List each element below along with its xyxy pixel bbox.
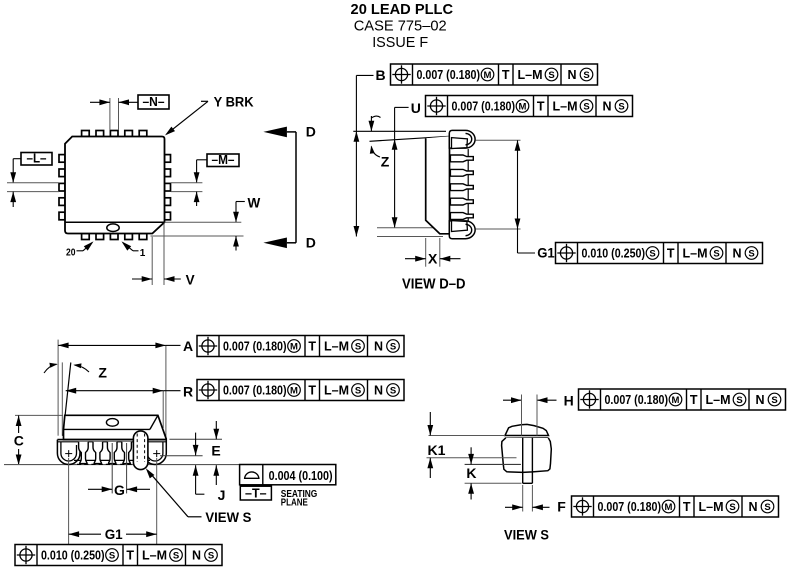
svg-text:T: T [667,247,675,261]
svg-text:CASE 775–02: CASE 775–02 [354,18,447,35]
svg-text:T: T [308,384,316,398]
dimension C [14,416,24,466]
svg-text:0.007 (0.180): 0.007 (0.180) [417,68,481,82]
datum T seating plane [240,486,317,509]
label G1 top [537,245,555,261]
svg-text:N: N [603,100,612,114]
feature frame B [391,64,598,85]
svg-text:T: T [308,340,316,354]
svg-text:M: M [290,341,298,352]
svg-text:F: F [557,498,566,514]
label A [183,338,193,354]
svg-text:N: N [756,393,765,407]
pin label 1 [122,241,146,259]
section D-D arrows [263,124,315,251]
front view rail inner bottom [74,459,150,461]
svg-text:G1: G1 [105,526,123,542]
title CASE 775-02 [354,18,447,35]
svg-text:S: S [109,550,115,561]
svg-text:L–M: L–M [699,500,724,514]
svg-text:S: S [390,385,396,396]
feature frame U [426,96,633,117]
svg-text:N: N [374,384,383,398]
svg-text:ISSUE F: ISSUE F [372,34,428,51]
dimension X [405,238,461,267]
svg-text:Z: Z [98,364,107,380]
seating plane line [4,464,240,466]
dimension J [193,465,226,503]
view D-D overall height dimension [354,131,444,236]
label F [557,498,566,514]
dimension -M- [171,153,239,206]
svg-text:–M–: –M– [212,153,235,167]
svg-text:0.010 (0.250): 0.010 (0.250) [582,247,646,261]
front view dimension R line [66,388,181,394]
svg-text:0.007 (0.180): 0.007 (0.180) [452,100,516,114]
svg-text:0.004 (0.100): 0.004 (0.100) [269,469,333,483]
svg-text:–N–: –N– [143,95,165,109]
svg-text:S: S [729,502,735,513]
svg-text:T: T [537,100,545,114]
pin label 20 [66,241,94,258]
svg-text:S: S [583,101,589,112]
dimension -L- [7,151,59,207]
svg-text:K: K [466,465,476,481]
svg-text:M: M [484,70,492,81]
svg-text:S: S [649,248,655,259]
svg-text:R: R [183,383,193,399]
feature frame H [579,389,786,410]
svg-text:G: G [114,482,125,498]
svg-text:S: S [583,70,589,81]
svg-text:–L–: –L– [27,151,47,165]
view S lead hat [429,424,549,438]
top view leads top row [82,131,147,137]
svg-text:L–M: L–M [683,247,708,261]
feature frame A [197,336,404,357]
svg-text:VIEW S: VIEW S [205,509,251,525]
svg-text:M: M [665,502,673,513]
svg-text:B: B [376,67,386,83]
top view pin1 dimple [107,224,119,232]
svg-text:U: U [411,100,421,116]
svg-text:S: S [208,550,214,561]
svg-text:J: J [218,487,226,503]
svg-text:S: S [736,395,742,406]
view S lead leg [523,438,533,484]
svg-text:S: S [771,395,777,406]
feature frame G1 bottom [15,545,222,566]
top view body bottom line [65,221,165,223]
svg-text:T: T [683,500,691,514]
svg-text:S: S [548,70,554,81]
front view dimension A line [58,343,180,349]
svg-text:VIEW D–D: VIEW D–D [402,275,466,292]
svg-text:S: S [748,248,754,259]
svg-text:S: S [713,248,719,259]
svg-text:1: 1 [140,248,146,259]
dimension W [151,196,261,251]
svg-text:L–M: L–M [142,549,167,563]
svg-text:M: M [672,395,680,406]
dimension H extension lines [522,395,538,436]
svg-text:H: H [564,393,574,409]
view D-D angle Z [369,116,390,170]
dimension -N- [90,95,169,130]
svg-text:20: 20 [66,248,76,259]
dimension K [465,447,522,499]
dimension G [88,443,150,498]
svg-text:D: D [306,234,316,250]
svg-text:V: V [186,273,195,288]
front view body [64,415,167,439]
feature frame G1 top [556,243,763,264]
dimension V [132,224,195,288]
svg-text:N: N [733,247,742,261]
flatness frame [240,465,336,485]
view D-D dimension G1 lines [476,140,536,253]
svg-text:S: S [173,550,179,561]
svg-text:S: S [390,341,396,352]
label H [564,393,574,409]
title ISSUE F [372,34,428,51]
top view leads bottom row [82,234,147,240]
svg-text:0.007 (0.180): 0.007 (0.180) [223,384,287,398]
top view leads right row [165,155,171,220]
view S lead body [502,438,552,473]
svg-text:0.010 (0.250): 0.010 (0.250) [41,549,105,563]
front view leads [79,442,132,464]
svg-text:W: W [248,196,261,211]
dimension F [505,485,550,512]
dimension H [503,397,557,403]
view D-D top corner J-lead [449,130,475,148]
front view lead detail S [133,431,148,470]
svg-text:Z: Z [381,154,390,170]
svg-text:S: S [355,385,361,396]
svg-text:X: X [428,250,438,266]
svg-text:VIEW S: VIEW S [504,527,549,543]
svg-text:S: S [764,502,770,513]
front view corner J-lead rail [57,440,166,465]
caption VIEW D-D [402,275,466,292]
caption VIEW S [504,527,549,543]
svg-text:L–M: L–M [553,100,578,114]
svg-text:G1: G1 [537,245,555,261]
svg-text:C: C [14,433,24,449]
view D-D slanted top line [370,136,450,141]
svg-text:L–M: L–M [518,68,543,82]
svg-text:0.007 (0.180): 0.007 (0.180) [598,500,662,514]
svg-text:T: T [502,68,510,82]
svg-text:T: T [690,393,698,407]
feature frame F [572,496,779,517]
label VIEW S pointer [146,468,252,525]
svg-text:S: S [355,341,361,352]
svg-text:E: E [211,442,220,458]
view D-D bottom corner J-lead [449,221,475,239]
svg-text:0.007 (0.180): 0.007 (0.180) [223,340,287,354]
front view angle Z [44,363,107,437]
svg-text:L–M: L–M [706,393,731,407]
svg-text:N: N [192,549,201,563]
view D-D body outline [426,136,450,234]
svg-text:M: M [519,101,527,112]
top view package body [65,137,165,234]
view D-D far lead row line [467,149,469,221]
label R [183,383,193,399]
svg-text:T: T [126,549,134,563]
dimension G1 bottom [69,458,157,544]
svg-text:20 LEAD PLLC: 20 LEAD PLLC [351,1,454,18]
svg-text:–T–: –T– [245,487,267,501]
svg-text:S: S [618,101,624,112]
view D-D top reference line [353,130,446,132]
view D-D body height dimension [377,139,447,228]
svg-text:0.007 (0.180): 0.007 (0.180) [605,393,669,407]
label Y BRK [165,94,254,135]
svg-text:D: D [306,124,316,140]
svg-text:N: N [568,68,577,82]
svg-text:L–M: L–M [324,340,349,354]
dimension K1 [427,412,517,478]
title 20 LEAD PLLC [351,1,454,18]
svg-text:L–M: L–M [324,384,349,398]
front view extension lines [15,340,166,439]
svg-text:M: M [290,385,298,396]
feature frame R [197,380,404,401]
datum U label and leader [395,100,421,140]
top view leads left row [59,155,65,220]
view D-D middle lead profiles [450,155,473,219]
dimension E [160,421,222,458]
datum B label and leader [356,67,385,131]
svg-text:PLANE: PLANE [281,498,308,509]
svg-text:N: N [749,500,758,514]
svg-text:Y BRK: Y BRK [214,94,254,109]
svg-text:K1: K1 [428,442,446,458]
svg-text:N: N [374,340,383,354]
svg-text:A: A [183,338,193,354]
front view hidden edge [77,463,149,465]
